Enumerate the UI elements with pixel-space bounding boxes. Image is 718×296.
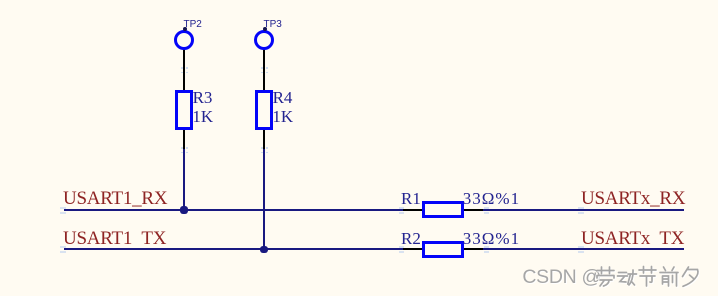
- svg-text:CSDN @: CSDN @: [522, 266, 601, 288]
